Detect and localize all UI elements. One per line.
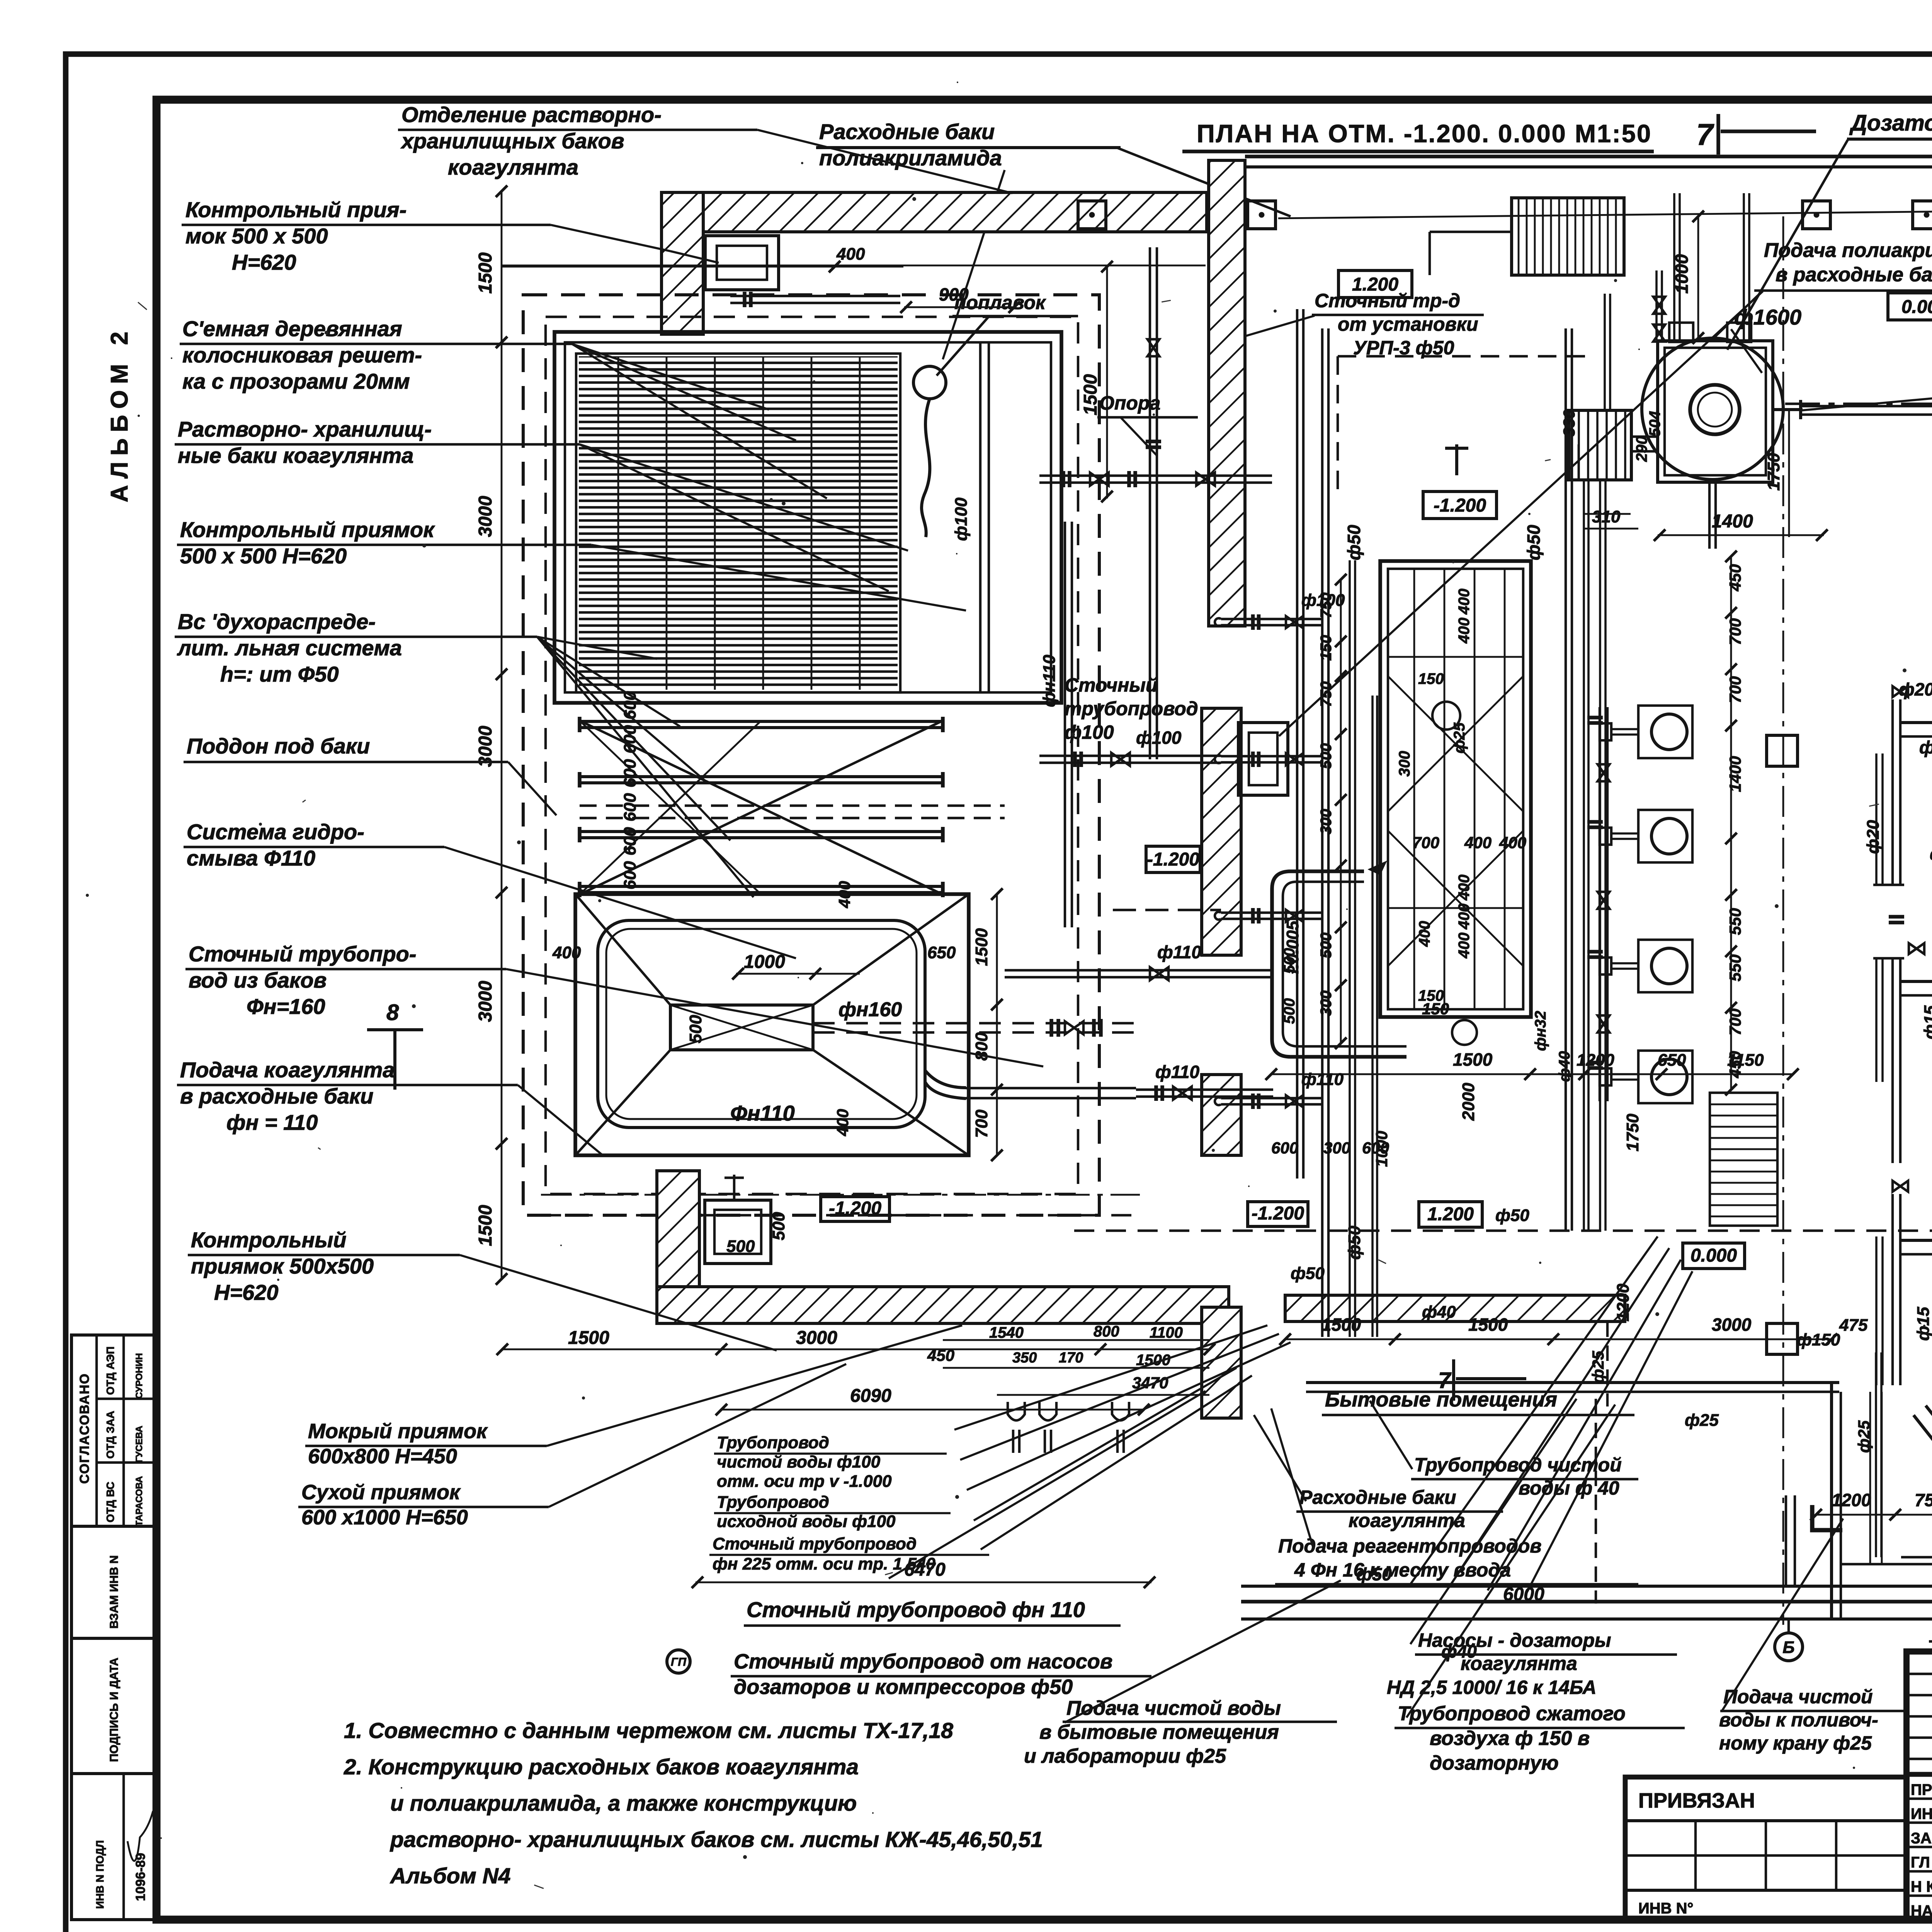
svg-text:400: 400 bbox=[552, 943, 581, 962]
pipe ф110 lower bbox=[1136, 1095, 1273, 1098]
svg-text:Сточный трубопровод фн 110: Сточный трубопровод фн 110 bbox=[747, 1597, 1085, 1622]
svg-text:ф40: ф40 bbox=[1422, 1303, 1456, 1321]
wall hatched band top-left bbox=[662, 192, 1207, 232]
inlet pipe into tank bbox=[730, 302, 900, 304]
svg-text:ПЛАН НА ОТМ. -1.200. 0.000 М: ПЛАН НА ОТМ. -1.200. 0.000 М1:50 bbox=[1197, 119, 1652, 148]
dosing motor with agitator bbox=[1568, 410, 1631, 480]
svg-text:ПОДПИСЬ И ДАТА: ПОДПИСЬ И ДАТА bbox=[108, 1658, 121, 1762]
dim chain bottom mid bbox=[1271, 1073, 1793, 1075]
left dimension chain bbox=[501, 191, 503, 1279]
svg-text:700: 700 bbox=[1726, 676, 1744, 703]
dim 1000 inside tank B bbox=[736, 973, 860, 975]
svg-text:коагулянта: коагулянта bbox=[1349, 1510, 1465, 1531]
left mixer dim chain bbox=[1340, 580, 1342, 1043]
svg-text:растворно- хранилищных баков: растворно- хранилищных баков см. листы К… bbox=[389, 1827, 1043, 1852]
compressor groups bbox=[1891, 699, 1894, 885]
svg-text:и лаборатории ф25: и лаборатории ф25 bbox=[1024, 1745, 1226, 1767]
svg-text:вод из баков: вод из баков bbox=[189, 968, 327, 992]
svg-text:фн32: фн32 bbox=[1532, 1011, 1549, 1051]
svg-text:Контрольный приямок: Контрольный приямок bbox=[180, 517, 435, 542]
svg-text:Сточный: Сточный bbox=[1065, 674, 1158, 696]
svg-text:400: 400 bbox=[1456, 617, 1473, 644]
pier hatched below tank bbox=[657, 1171, 699, 1287]
svg-text:ф150: ф150 bbox=[1797, 1330, 1840, 1349]
svg-text:лит. льная система: лит. льная система bbox=[177, 636, 402, 660]
svg-text:ф110: ф110 bbox=[1301, 1070, 1344, 1089]
svg-text:1540: 1540 bbox=[989, 1324, 1024, 1341]
storage tank outer shell bbox=[554, 332, 1061, 703]
bottom wall hatched band right bbox=[1285, 1295, 1625, 1321]
U-shaped flush pipe i=0.005 bbox=[1272, 871, 1406, 1057]
svg-text:воды к поливоч-: воды к поливоч- bbox=[1719, 1709, 1878, 1731]
elevation box -1.200 mid bbox=[1423, 492, 1497, 519]
svg-text:Подача чистой: Подача чистой bbox=[1723, 1686, 1873, 1708]
svg-text:фн110: фн110 bbox=[1040, 655, 1059, 707]
support pipe and Опора label bbox=[1149, 247, 1151, 759]
axis circle Б bottom bbox=[1787, 1619, 1790, 1633]
svg-text:ф25: ф25 bbox=[1451, 722, 1468, 753]
leaders from bottom labels up bbox=[1410, 1399, 1577, 1644]
svg-text:С'емная деревянная: С'емная деревянная bbox=[182, 316, 402, 341]
svg-text:ф100: ф100 bbox=[952, 497, 971, 541]
svg-text:в бытовые помещения: в бытовые помещения bbox=[1039, 1721, 1279, 1743]
vertical riser near pallet edge bbox=[1064, 522, 1066, 927]
svg-text:СУРОНИН: СУРОНИН bbox=[134, 1353, 145, 1399]
air distribution bars bbox=[580, 726, 943, 729]
compressor unit at 3390 bbox=[1900, 1240, 1932, 1291]
elevation box 1.200 bbox=[1338, 270, 1412, 298]
svg-text:ф15: ф15 bbox=[1921, 1005, 1932, 1039]
svg-text:чистой воды ф100: чистой воды ф100 bbox=[717, 1452, 881, 1471]
svg-text:исходной воды ф100: исходной воды ф100 bbox=[717, 1512, 896, 1531]
svg-text:500: 500 bbox=[1281, 948, 1298, 974]
building bottom wall bbox=[1241, 1585, 1932, 1588]
svg-text:ОТД АЭП: ОТД АЭП bbox=[104, 1347, 116, 1395]
svg-text:воздуха ф 150 в: воздуха ф 150 в bbox=[1430, 1727, 1590, 1750]
dim 1000 rotated above dosing bbox=[1697, 216, 1699, 340]
reagent fan leaders bbox=[1410, 1236, 1658, 1584]
dry pit bbox=[705, 1200, 771, 1264]
dosing pumps row bbox=[1638, 706, 1692, 758]
wall corner block hatched bbox=[662, 192, 703, 334]
svg-text:1500: 1500 bbox=[1080, 374, 1101, 415]
elevation boxes bottom row bbox=[821, 1197, 889, 1221]
svg-text:Мокрый приямок: Мокрый приямок bbox=[308, 1420, 488, 1443]
pipes above dosing tank bbox=[1673, 193, 1675, 341]
svg-text:Трубопровод чистой: Трубопровод чистой bbox=[1414, 1454, 1622, 1476]
svg-text:Трубопровод: Трубопровод bbox=[717, 1493, 829, 1512]
svg-text:Контрольный прия-: Контрольный прия- bbox=[185, 197, 406, 222]
dim 1500 vertical near float bbox=[1106, 267, 1108, 498]
svg-text:400: 400 bbox=[1456, 874, 1473, 901]
svg-text:1750: 1750 bbox=[1764, 453, 1783, 491]
vertical axes dash-dot bbox=[1782, 216, 1784, 1625]
svg-text:1200: 1200 bbox=[1614, 1284, 1633, 1321]
vent chamber left wall bbox=[1785, 1495, 1787, 1586]
svg-text:1000: 1000 bbox=[744, 952, 785, 972]
svg-text:300: 300 bbox=[1323, 1139, 1350, 1157]
svg-text:4 Фн 16 к месту ввода: 4 Фн 16 к месту ввода bbox=[1294, 1559, 1511, 1581]
svg-text:6090: 6090 bbox=[850, 1386, 891, 1406]
X braces over air bars bbox=[580, 721, 943, 895]
dosing unit tank Ф1600 bbox=[1642, 338, 1783, 480]
svg-text:1.200: 1.200 bbox=[1427, 1204, 1474, 1225]
svg-text:150: 150 bbox=[1422, 1000, 1449, 1018]
svg-text:в расходные баки ф50: в расходные баки ф50 bbox=[1776, 264, 1932, 286]
svg-text:ф1600: ф1600 bbox=[1734, 305, 1801, 329]
left margin stamp cells bbox=[71, 1335, 155, 1920]
svg-text:НАЧ ОТД: НАЧ ОТД bbox=[1911, 1903, 1932, 1920]
svg-text:дозаторов и компрессоров ф5: дозаторов и компрессоров ф50 bbox=[734, 1675, 1073, 1699]
float (поплавок) bbox=[913, 366, 946, 399]
tank B center sump bbox=[670, 1005, 813, 1050]
svg-text:600: 600 bbox=[621, 861, 639, 889]
svg-text:1100: 1100 bbox=[1150, 1324, 1183, 1341]
svg-text:Опора: Опора bbox=[1099, 392, 1160, 414]
svg-text:650: 650 bbox=[1658, 1051, 1686, 1070]
svg-text:550: 550 bbox=[1726, 908, 1744, 935]
svg-text:400: 400 bbox=[1464, 833, 1492, 852]
svg-text:550: 550 bbox=[1726, 954, 1744, 981]
svg-text:700: 700 bbox=[972, 1109, 991, 1138]
svg-text:500: 500 bbox=[769, 1212, 788, 1240]
circled ГП mark bbox=[667, 1650, 690, 1673]
svg-text:-1.200: -1.200 bbox=[829, 1198, 881, 1219]
svg-text:Расходные баки: Расходные баки bbox=[819, 119, 995, 144]
svg-text:фн 225 отм. оси тр. 1 540: фн 225 отм. оси тр. 1 540 bbox=[713, 1554, 935, 1573]
svg-text:в расходные баки: в расходные баки bbox=[180, 1084, 373, 1108]
horizontal pipe at 1240 bbox=[1039, 481, 1272, 484]
svg-text:ИНЖⅠКАТ: ИНЖⅠКАТ bbox=[1911, 1806, 1932, 1823]
svg-text:Трубопровод сжатого: Трубопровод сжатого bbox=[1398, 1702, 1626, 1725]
vertical pipe in tank right strip bbox=[979, 342, 981, 692]
svg-text:трубопровод: трубопровод bbox=[1065, 698, 1198, 719]
long dashed line under pumps bbox=[1074, 1230, 1932, 1232]
svg-text:350: 350 bbox=[1012, 1350, 1037, 1366]
svg-text:400: 400 bbox=[1456, 932, 1473, 959]
svg-text:500: 500 bbox=[1281, 998, 1298, 1024]
svg-text:колосниковая решет-: колосниковая решет- bbox=[182, 343, 422, 367]
svg-text:h=: ит Ф50: h=: ит Ф50 bbox=[220, 662, 339, 686]
valve stack above motor bbox=[1655, 270, 1658, 340]
svg-text:650: 650 bbox=[927, 943, 956, 962]
ring outlet bend right bbox=[925, 1070, 966, 1088]
svg-text:ка с прозорами 20мм: ка с прозорами 20мм bbox=[182, 369, 410, 393]
svg-text:700: 700 bbox=[1726, 618, 1744, 645]
svg-text:290: 290 bbox=[1633, 436, 1650, 462]
central wall hatched column segments bbox=[1209, 160, 1245, 626]
svg-text:300: 300 bbox=[1318, 809, 1335, 835]
svg-text:0.000: 0.000 bbox=[1690, 1245, 1737, 1266]
svg-text:дозаторную: дозаторную bbox=[1430, 1752, 1559, 1774]
svg-text:1500: 1500 bbox=[1321, 1315, 1361, 1335]
svg-text:ф50: ф50 bbox=[1291, 1264, 1325, 1283]
svg-text:Подача чистой воды: Подача чистой воды bbox=[1066, 1697, 1281, 1719]
svg-text:Трубопровод: Трубопровод bbox=[717, 1433, 829, 1452]
svg-text:400: 400 bbox=[1416, 921, 1433, 947]
dashed flush bundle bbox=[580, 804, 1005, 807]
svg-text:ф100: ф100 bbox=[1065, 721, 1114, 743]
pallet dashed outline (поддон) bbox=[523, 295, 1099, 1215]
svg-text:500: 500 bbox=[726, 1237, 755, 1256]
svg-text:400: 400 bbox=[835, 881, 854, 908]
svg-text:504: 504 bbox=[1646, 411, 1663, 437]
svg-text:3000: 3000 bbox=[1712, 1315, 1752, 1335]
svg-text:отм. оси тр v -1.000: отм. оси тр v -1.000 bbox=[717, 1472, 892, 1491]
svg-text:1. Совместно с данным чертежо: 1. Совместно с данным чертежом см. листы… bbox=[344, 1718, 953, 1743]
svg-text:Отделение растворно-: Отделение растворно- bbox=[401, 102, 662, 127]
svg-text:400: 400 bbox=[1456, 588, 1473, 615]
svg-text:приямок 500х500: приямок 500х500 bbox=[191, 1254, 374, 1278]
svg-text:ф25: ф25 bbox=[1685, 1411, 1719, 1430]
svg-text:Фн=160: Фн=160 bbox=[247, 994, 325, 1019]
hand trolley centerline bbox=[1785, 403, 1932, 405]
svg-text:700: 700 bbox=[1412, 833, 1439, 852]
svg-text:ф50: ф50 bbox=[1524, 525, 1544, 560]
svg-text:2. Конструкцию расходных бак: 2. Конструкцию расходных баков коагулянт… bbox=[344, 1755, 859, 1779]
svg-text:ф110: ф110 bbox=[1155, 1062, 1199, 1082]
household rooms right wall bbox=[1830, 1383, 1833, 1619]
svg-text:1750: 1750 bbox=[1623, 1114, 1642, 1151]
horizontal pipe ф100 upper bbox=[1039, 762, 1221, 764]
svg-text:СОГЛАСОВАНО: СОГЛАСОВАНО bbox=[77, 1373, 92, 1484]
bottom wall hatched band left bbox=[657, 1287, 1229, 1323]
svg-text:АЛЬБОМ 2: АЛЬБОМ 2 bbox=[106, 325, 133, 502]
dim 6090 bbox=[721, 1409, 1144, 1411]
svg-text:6000: 6000 bbox=[1503, 1584, 1544, 1605]
svg-text:ф50: ф50 bbox=[1344, 525, 1364, 560]
svg-text:ф15: ф15 bbox=[1914, 1307, 1932, 1341]
mixer tank bbox=[1380, 561, 1531, 1017]
svg-text:400: 400 bbox=[836, 245, 865, 264]
svg-text:Сточный трубопровод: Сточный трубопровод bbox=[713, 1534, 917, 1553]
svg-text:1150: 1150 bbox=[1727, 1051, 1764, 1070]
svg-text:450: 450 bbox=[927, 1346, 954, 1364]
dim 6470 bbox=[696, 1582, 1151, 1583]
svg-text:ф100: ф100 bbox=[1136, 728, 1182, 748]
svg-text:ГУСЕВА: ГУСЕВА bbox=[134, 1426, 145, 1463]
svg-text:Расходные баки: Расходные баки bbox=[1299, 1486, 1456, 1508]
column squares on top wall bbox=[1078, 201, 1106, 229]
svg-text:Фн110: Фн110 bbox=[730, 1101, 795, 1125]
svg-text:Б: Б bbox=[1782, 1638, 1794, 1657]
svg-text:800: 800 bbox=[1094, 1323, 1119, 1340]
svg-text:1000: 1000 bbox=[1672, 254, 1692, 294]
dashed ф25 pipe бытовые bbox=[1595, 1399, 1597, 1604]
svg-text:Растворно- хранилищ-: Растворно- хранилищ- bbox=[178, 417, 432, 441]
pipe ф110 out left mid bbox=[1005, 976, 1273, 978]
suction pipe diagonal bbox=[1913, 1415, 1932, 1570]
svg-text:150: 150 bbox=[1418, 670, 1444, 687]
svg-text:ному крану ф25: ному крану ф25 bbox=[1719, 1732, 1872, 1754]
svg-text:ИНВ N°: ИНВ N° bbox=[1638, 1900, 1694, 1917]
svg-text:330: 330 bbox=[1560, 410, 1578, 437]
svg-text:ф100: ф100 bbox=[1301, 591, 1345, 610]
svg-text:1500: 1500 bbox=[972, 928, 991, 966]
svg-text:Контрольный: Контрольный bbox=[191, 1228, 346, 1252]
svg-text:500 х 500 Н=620: 500 х 500 Н=620 bbox=[180, 544, 347, 568]
pipe bundle near wall bbox=[1349, 560, 1351, 1337]
ф25 watering arrow bbox=[1901, 1556, 1932, 1558]
svg-text:170: 170 bbox=[1059, 1350, 1083, 1366]
svg-text:1500: 1500 bbox=[1468, 1315, 1508, 1335]
svg-text:Н=620: Н=620 bbox=[232, 250, 296, 274]
Привязан box bbox=[1625, 1777, 1906, 1920]
svg-text:-1.200: -1.200 bbox=[1252, 1203, 1304, 1224]
svg-text:450: 450 bbox=[1726, 564, 1744, 592]
svg-text:600 х1000 Н=650: 600 х1000 Н=650 bbox=[301, 1506, 468, 1529]
svg-text:600: 600 bbox=[621, 827, 639, 855]
svg-text:Н=620: Н=620 bbox=[214, 1280, 279, 1304]
svg-text:7: 7 bbox=[1438, 1368, 1452, 1393]
svg-text:ПРОВЕР: ПРОВЕР bbox=[1911, 1781, 1932, 1798]
svg-text:ЗАВ СЕК: ЗАВ СЕК bbox=[1911, 1830, 1932, 1847]
dim cluster center: 1500 3000 row bbox=[502, 1349, 1209, 1350]
svg-text:ф100: ф100 bbox=[1930, 845, 1932, 864]
svg-text:Сточный тр-д: Сточный тр-д bbox=[1315, 290, 1460, 311]
svg-text:Дозаторная: Дозаторная bbox=[1849, 111, 1932, 136]
svg-text:500: 500 bbox=[686, 1015, 705, 1043]
svg-text:750: 750 bbox=[1915, 1490, 1932, 1510]
svg-text:600х800 Н=450: 600х800 Н=450 bbox=[308, 1445, 457, 1468]
svg-text:1500: 1500 bbox=[475, 1205, 496, 1246]
grating zone dense horizontal lines bbox=[576, 354, 900, 692]
svg-text:хранилищных баков: хранилищных баков bbox=[400, 129, 624, 153]
middle rooms top wall bbox=[1245, 155, 1932, 158]
svg-text:ОТД ВС: ОТД ВС bbox=[104, 1482, 116, 1522]
svg-text:Сточный трубопро-: Сточный трубопро- bbox=[189, 942, 417, 966]
svg-text:600: 600 bbox=[621, 793, 639, 821]
svg-text:Подача полиакриламида: Подача полиакриламида bbox=[1764, 239, 1932, 262]
vent chamber inner wall bbox=[1841, 1563, 1932, 1565]
svg-text:Н КОНТР: Н КОНТР bbox=[1911, 1878, 1932, 1895]
svg-text:ОТД ЗАА: ОТД ЗАА bbox=[104, 1411, 116, 1459]
title block horizontal dividers bbox=[1906, 1772, 1932, 1777]
dims bottom right 1200 750 1350 2700 270 bbox=[1816, 1514, 1932, 1516]
svg-text:коагулянта: коагулянта bbox=[1461, 1653, 1577, 1674]
tank B diagonals to center sump bbox=[575, 894, 670, 1005]
svg-text:воды ф 40: воды ф 40 bbox=[1519, 1477, 1619, 1499]
svg-text:Насосы - дозаторы: Насосы - дозаторы bbox=[1418, 1629, 1611, 1651]
svg-text:от установки: от установки bbox=[1338, 313, 1478, 335]
svg-text:ГП: ГП bbox=[671, 1656, 687, 1668]
dims 1500 1500 3000 bottom mid bbox=[1285, 1338, 1832, 1340]
svg-text:смыва Ф110: смыва Ф110 bbox=[187, 846, 315, 870]
svg-text:полиакриламида: полиакриламида bbox=[819, 146, 1002, 170]
fan leaders from small pipe labels bbox=[954, 1325, 1267, 1430]
svg-text:мок 500 х 500: мок 500 х 500 bbox=[185, 224, 328, 248]
svg-text:1000: 1000 bbox=[1372, 1131, 1391, 1167]
svg-text:ф110: ф110 bbox=[1157, 942, 1201, 962]
centerline below tank bbox=[541, 1194, 1140, 1196]
svg-text:НД 2,5 1000/ 16 к 14БА: НД 2,5 1000/ 16 к 14БА bbox=[1387, 1677, 1596, 1698]
svg-text:1400: 1400 bbox=[1726, 756, 1744, 792]
svg-text:150: 150 bbox=[1318, 635, 1335, 661]
svg-text:900: 900 bbox=[939, 284, 969, 304]
svg-text:ф20: ф20 bbox=[1864, 820, 1883, 854]
svg-text:700: 700 bbox=[1726, 1009, 1744, 1036]
svg-text:300: 300 bbox=[1318, 990, 1335, 1016]
svg-text:1500: 1500 bbox=[568, 1328, 609, 1348]
svg-text:8: 8 bbox=[386, 1000, 399, 1025]
svg-text:500: 500 bbox=[1318, 932, 1335, 958]
column square mid bbox=[1767, 735, 1798, 766]
extra vertical pipes middle bbox=[1565, 328, 1567, 1231]
vertical pipes near wall bbox=[1296, 309, 1298, 1179]
title block outer bbox=[1906, 1651, 1932, 1920]
svg-text:и полиакриламида, а также кон: и полиакриламида, а также конструкцию bbox=[390, 1791, 857, 1816]
svg-text:ПРИВЯЗАН: ПРИВЯЗАН bbox=[1638, 1789, 1755, 1812]
stairs bottom middle bbox=[1710, 1093, 1777, 1226]
svg-text:1500: 1500 bbox=[475, 252, 496, 294]
svg-text:ТАРАСОВА: ТАРАСОВА bbox=[134, 1476, 145, 1526]
svg-text:400: 400 bbox=[833, 1109, 852, 1136]
svg-text:750: 750 bbox=[1318, 681, 1335, 707]
Фн160 drain dashed pipe bbox=[813, 1022, 1136, 1024]
dim 900 top bbox=[904, 306, 1016, 308]
vertical dim chain mid bbox=[1730, 556, 1732, 1090]
svg-text:Подача реагентопроводов: Подача реагентопроводов bbox=[1278, 1535, 1542, 1557]
svg-text:7: 7 bbox=[1696, 117, 1714, 151]
svg-text:ные баки коагулянта: ные баки коагулянта bbox=[178, 443, 413, 468]
tank B with hydro-flush ring bbox=[575, 894, 969, 1155]
svg-text:ИНВ N ПОДЛ: ИНВ N ПОДЛ bbox=[94, 1840, 106, 1909]
elevation -1.200 left of mixer bbox=[1146, 846, 1200, 872]
svg-text:1400: 1400 bbox=[1712, 511, 1753, 532]
tank B right dim chain bbox=[996, 894, 998, 1155]
stair grate block top bbox=[1512, 198, 1624, 275]
svg-text:2000: 2000 bbox=[1459, 1083, 1478, 1121]
svg-text:Поддон под баки: Поддон под баки bbox=[187, 734, 370, 758]
household rooms top wall bbox=[1306, 1381, 1839, 1384]
svg-text:Альбом N4: Альбом N4 bbox=[389, 1864, 510, 1888]
svg-text:3000: 3000 bbox=[475, 981, 496, 1022]
compressor unit at 2050 bbox=[1900, 723, 1932, 774]
svg-text:Система гидро-: Система гидро- bbox=[187, 820, 364, 844]
dim 1400 under dosing bbox=[1658, 534, 1824, 536]
svg-text:ф25: ф25 bbox=[1589, 1350, 1607, 1383]
svg-text:0.000: 0.000 bbox=[1901, 297, 1932, 317]
svg-text:ВЗАМ ИНВ N: ВЗАМ ИНВ N bbox=[108, 1555, 121, 1629]
svg-text:коагулянта: коагулянта bbox=[448, 155, 578, 179]
elevation box 0.000 top bbox=[1888, 293, 1932, 320]
svg-text:600: 600 bbox=[621, 759, 639, 787]
svg-text:фн160: фн160 bbox=[838, 998, 902, 1021]
svg-text:фн = 110: фн = 110 bbox=[226, 1110, 318, 1134]
svg-text:-1.200: -1.200 bbox=[1434, 495, 1486, 516]
svg-text:300: 300 bbox=[1396, 751, 1413, 777]
svg-text:475: 475 bbox=[1839, 1316, 1868, 1335]
svg-text:ГЛ СПЕЦ: ГЛ СПЕЦ bbox=[1911, 1854, 1932, 1871]
svg-text:3000: 3000 bbox=[475, 496, 496, 537]
svg-text:1500: 1500 bbox=[1453, 1049, 1493, 1070]
svg-text:ф50: ф50 bbox=[1495, 1206, 1529, 1225]
svg-text:ф100: ф100 bbox=[1919, 737, 1932, 757]
svg-text:-1.200: -1.200 bbox=[1147, 849, 1199, 870]
svg-text:Подача коагулянта: Подача коагулянта bbox=[180, 1058, 395, 1082]
svg-text:Вс 'духораспреде-: Вс 'духораспреде- bbox=[178, 609, 376, 634]
svg-text:400: 400 bbox=[1499, 833, 1526, 852]
svg-text:Сточный трубопровод от насос: Сточный трубопровод от насосов bbox=[734, 1650, 1112, 1673]
waste pipe dashed to dosing bbox=[1338, 355, 1588, 357]
svg-text:1200: 1200 bbox=[1832, 1490, 1871, 1510]
door frame top-left room bbox=[705, 236, 779, 290]
leader from Дозаторная to dosing tank bbox=[1727, 140, 1848, 350]
dim 1750 rotated bbox=[1788, 410, 1790, 537]
long axis line across middle rooms bbox=[1278, 207, 1932, 218]
compressor unit at 2720 bbox=[1900, 981, 1932, 1032]
svg-text:3000: 3000 bbox=[796, 1328, 837, 1348]
